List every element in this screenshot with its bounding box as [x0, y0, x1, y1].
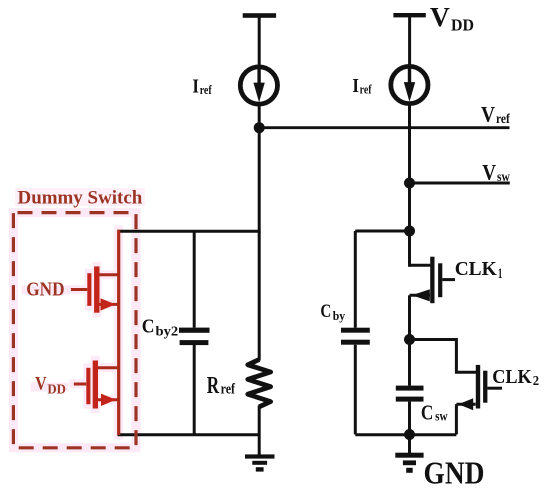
svg-text:DD: DD	[451, 15, 474, 34]
transistor Q1 source lead and arrow	[410, 294, 431, 297]
transistor M1 (dummy, gate GND): gate lead	[71, 288, 87, 291]
capacitor C_by2	[193, 231, 196, 328]
svg-text:1: 1	[498, 266, 503, 282]
svg-text:GND: GND	[26, 279, 64, 300]
svg-text:CLK: CLK	[492, 366, 532, 388]
pink halo under red elements	[13, 213, 136, 448]
svg-text:V: V	[481, 102, 495, 127]
node junction dot (ground tap)	[404, 429, 415, 440]
ground (right)	[408, 435, 411, 454]
dummy switch dashed box	[13, 213, 136, 448]
transistor Q1 CLK1 : drain lead	[410, 264, 431, 267]
wire (right branch down, crosses V_ref)	[408, 103, 411, 267]
net V_ref wire	[259, 126, 509, 129]
capacitor C_sw	[408, 340, 411, 386]
transistor Q2 gate lead	[487, 387, 502, 390]
wire	[258, 406, 261, 456]
wire top-left rail	[118, 230, 261, 233]
wire red rail	[117, 230, 120, 435]
svg-text:I: I	[352, 75, 359, 97]
transistor Q1 channel bar	[430, 257, 434, 304]
transistor Q2 source lead and arrow	[456, 403, 475, 406]
transistor Q2 channel bar	[476, 365, 480, 409]
current source I_ref (left) U1	[240, 67, 277, 104]
node V_ref junction dot	[254, 122, 265, 133]
svg-text:R: R	[207, 373, 220, 399]
ground (left)	[245, 454, 275, 458]
capacitor C_by	[354, 231, 357, 328]
transistor Q2 gate bar	[483, 371, 487, 403]
transistor Q1 gate lead	[442, 278, 455, 281]
svg-text:sw: sw	[435, 409, 448, 424]
transistor M1 source lead and arrow	[100, 303, 119, 306]
svg-text:by2: by2	[156, 324, 179, 339]
svg-text:I: I	[192, 75, 199, 97]
net V_sw wire	[410, 182, 510, 185]
svg-text:V: V	[35, 374, 47, 395]
wire bottom-left rail	[118, 433, 260, 436]
svg-text:C: C	[421, 401, 434, 425]
wire (source down to node)	[408, 295, 411, 343]
transistor Q1 gate bar	[438, 263, 442, 297]
wire	[258, 104, 261, 132]
wire bottom-right rail	[355, 433, 456, 436]
svg-text:ref: ref	[221, 381, 236, 397]
transistor M1 channel bar	[94, 266, 99, 312]
svg-text:C: C	[142, 316, 155, 338]
node junction dot (C_by tap)	[404, 226, 415, 237]
node junction dot (C_sw / CLK2 tap)	[404, 334, 415, 345]
current source I_ref (right) U2	[391, 66, 428, 103]
svg-text:ref: ref	[360, 83, 373, 97]
svg-text:Dummy Switch: Dummy Switch	[18, 188, 143, 209]
svg-text:by: by	[333, 308, 346, 323]
svg-text:V: V	[482, 160, 496, 185]
node VDD supply bar (right branch top)	[393, 13, 425, 17]
svg-text:2: 2	[533, 374, 539, 389]
svg-text:ref: ref	[200, 83, 213, 97]
transistor M2 gate bar	[86, 368, 90, 404]
svg-text:DD: DD	[47, 381, 66, 396]
wire to CLK2 drain	[410, 340, 477, 373]
svg-text:C: C	[320, 301, 331, 322]
svg-text:ref: ref	[496, 111, 510, 126]
svg-text:CLK: CLK	[455, 258, 497, 280]
svg-text:V: V	[430, 2, 450, 32]
transistor M2 (dummy, gate VDD): gate lead	[74, 383, 87, 386]
transistor M1 gate bar	[87, 273, 91, 306]
transistor M1 drain lead	[100, 273, 119, 276]
node VDD supply bar (left branch top)	[243, 13, 276, 18]
svg-text:sw: sw	[497, 169, 510, 184]
node V_sw junction dot	[404, 178, 415, 189]
svg-text:GND: GND	[424, 455, 485, 490]
wire to C_by	[355, 230, 409, 233]
resistor R_ref	[248, 360, 271, 407]
transistor M2 channel bar	[93, 361, 98, 409]
wire	[258, 17, 261, 67]
transistor M2 drain lead	[98, 366, 119, 369]
wire	[408, 17, 411, 67]
transistor M2 source lead and arrow	[98, 398, 119, 401]
wire (left branch down to resistor)	[258, 128, 261, 361]
